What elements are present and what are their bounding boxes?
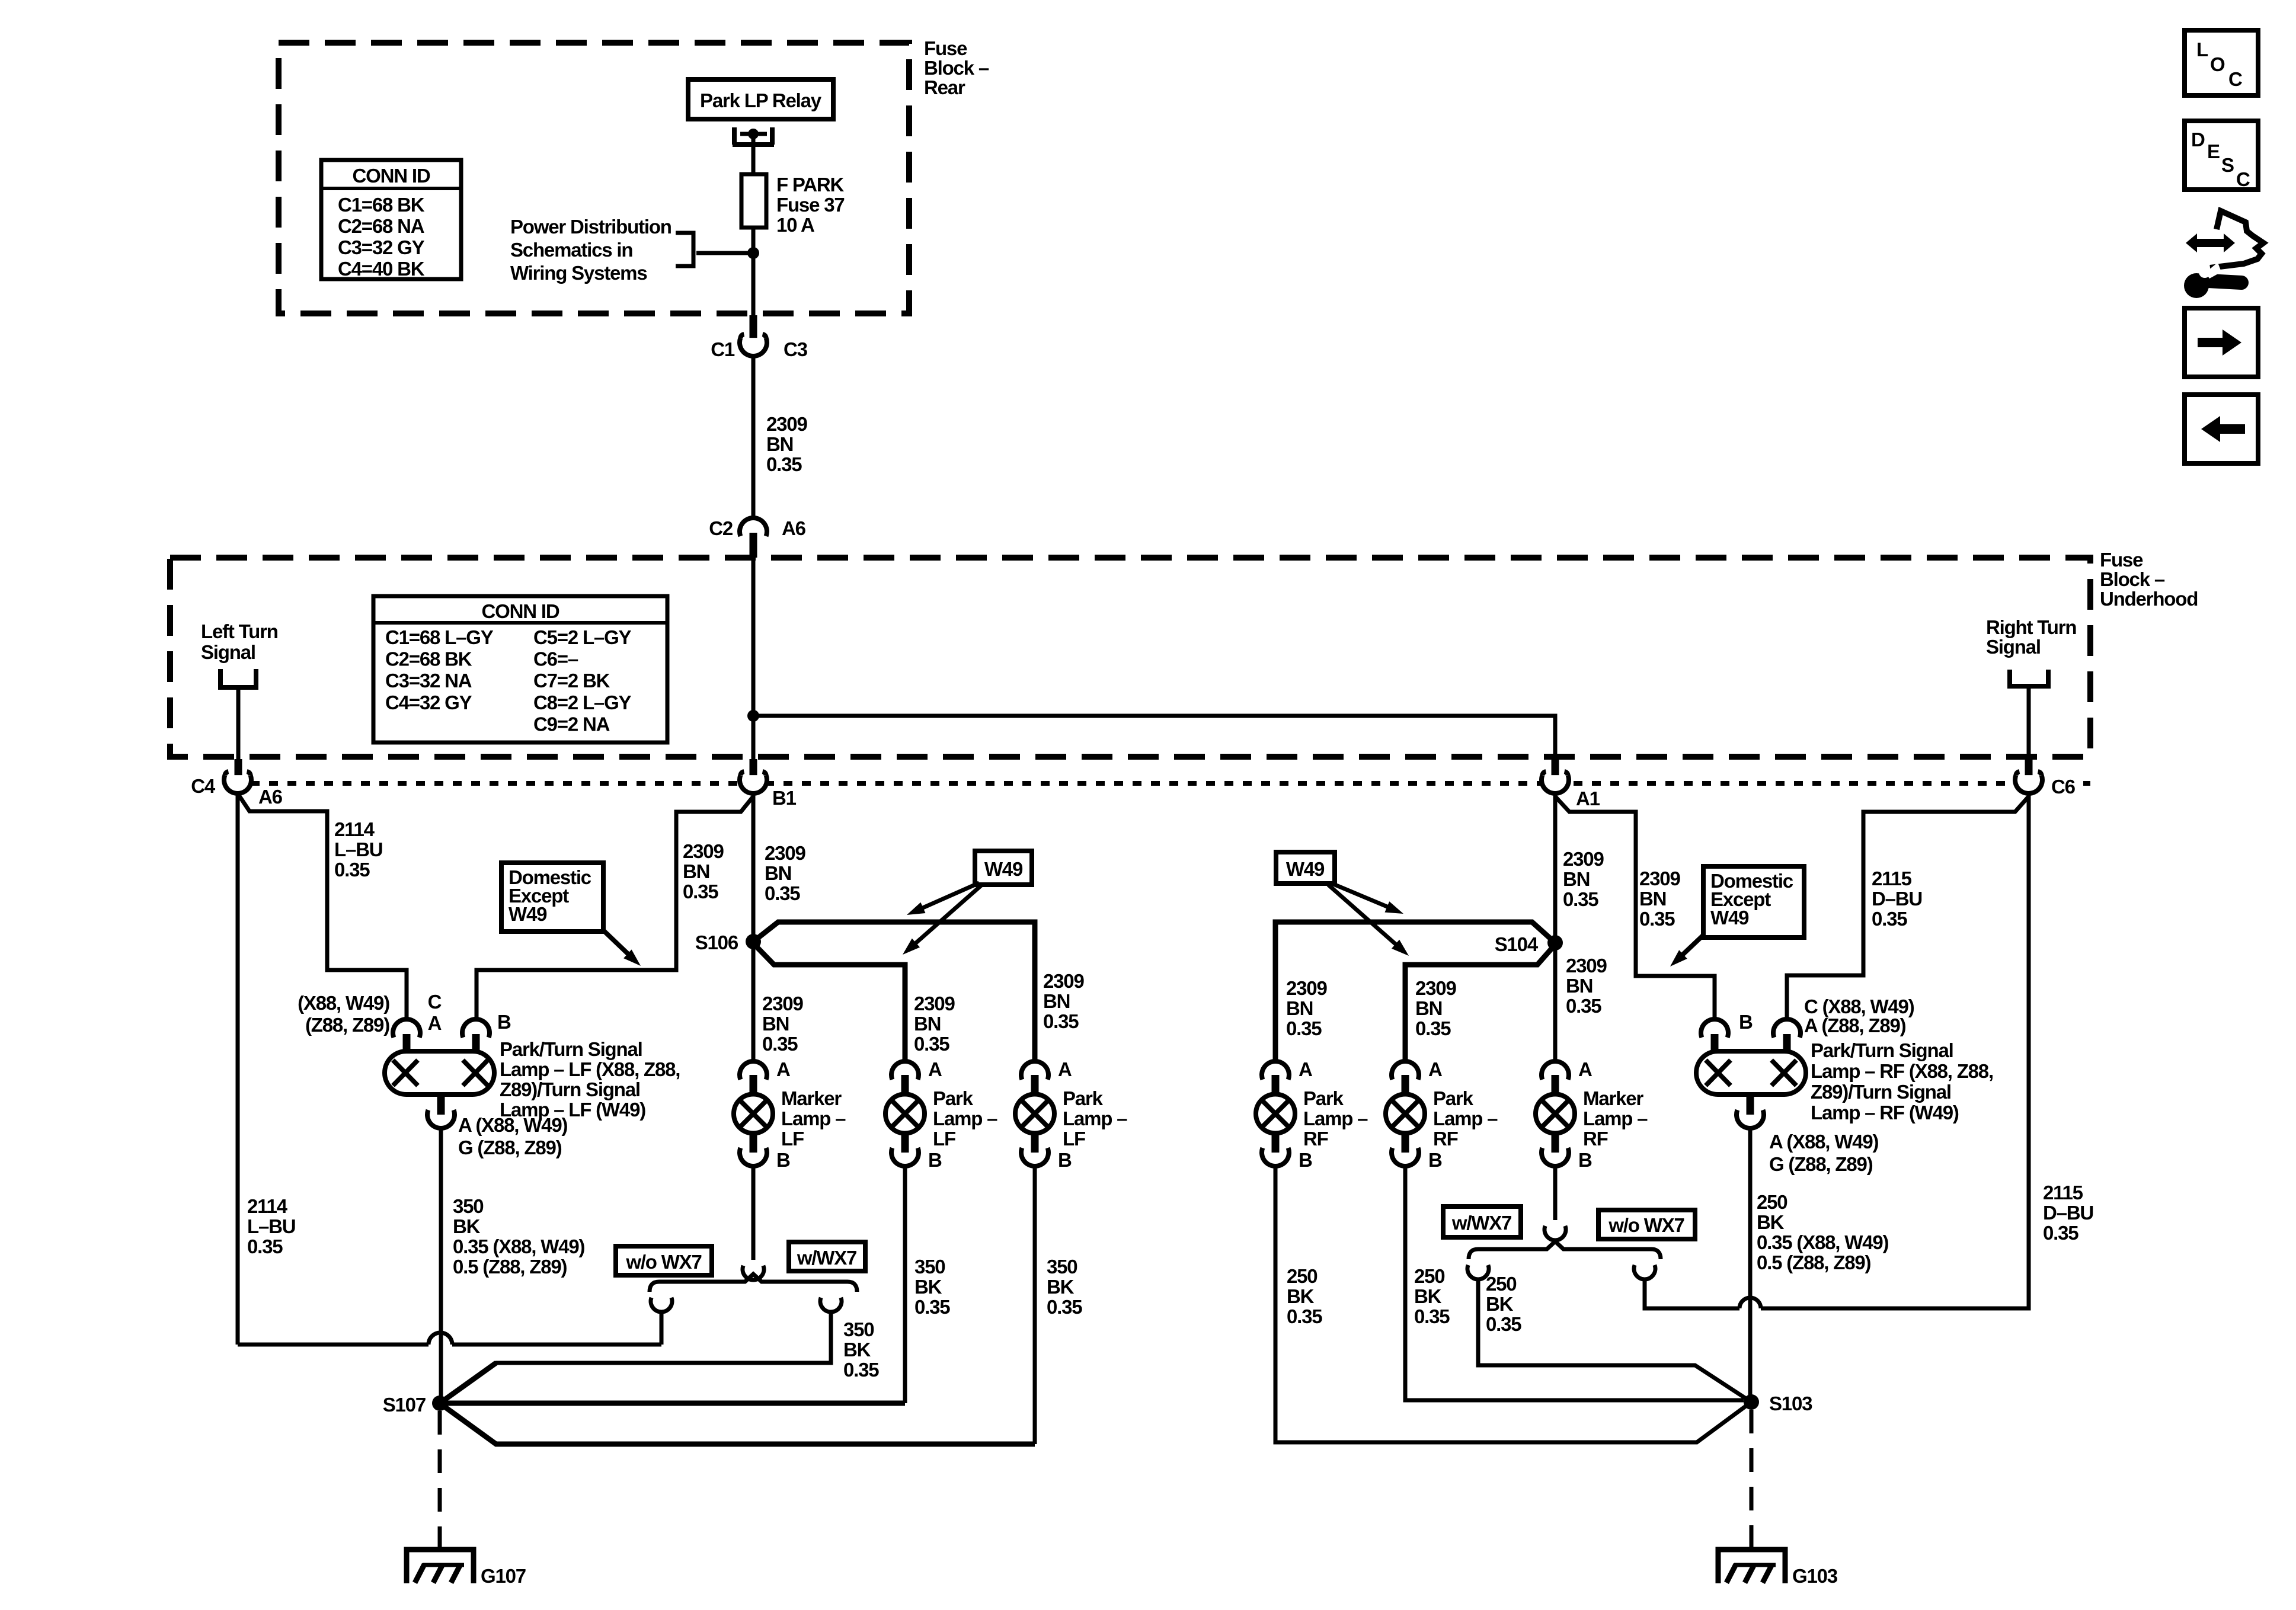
svg-text:Fuse 37: Fuse 37 [776, 194, 845, 216]
svg-text:BK: BK [1414, 1285, 1442, 1307]
svg-text:Right Turn: Right Turn [1986, 616, 2076, 638]
svg-text:0.35: 0.35 [914, 1296, 950, 1318]
label Fuse Block - Rear [924, 37, 989, 98]
svg-text:B: B [1058, 1149, 1072, 1171]
svg-text:B: B [1299, 1149, 1312, 1171]
lamp park RF 1 [1256, 1058, 1368, 1171]
svg-text:B: B [1578, 1149, 1592, 1171]
svg-text:BN: BN [1286, 997, 1313, 1019]
svg-text:2309: 2309 [914, 993, 955, 1014]
svg-text:0.35: 0.35 [1043, 1010, 1079, 1032]
svg-text:C9=2 NA: C9=2 NA [533, 713, 610, 735]
svg-text:Z89)/Turn Signal: Z89)/Turn Signal [1811, 1081, 1951, 1103]
svg-text:C6=–: C6=– [533, 648, 578, 670]
connector C6 [2015, 759, 2076, 798]
svg-text:Underhood: Underhood [2100, 588, 2198, 610]
svg-text:S106: S106 [695, 932, 738, 953]
fuse F PARK Fuse 37 10A [741, 174, 845, 236]
svg-text:0.35 (X88, W49): 0.35 (X88, W49) [453, 1235, 584, 1257]
svg-text:A (X88, W49): A (X88, W49) [1769, 1131, 1878, 1153]
svg-text:Marker: Marker [1583, 1087, 1643, 1109]
svg-text:Lamp –: Lamp – [1433, 1108, 1498, 1129]
svg-text:BN: BN [766, 433, 793, 455]
svg-text:250: 250 [1287, 1265, 1317, 1287]
svg-text:C5=2 L–GY: C5=2 L–GY [533, 626, 632, 648]
svg-text:RF: RF [1583, 1128, 1608, 1150]
label 350 BK park LF 2 [1047, 1256, 1082, 1318]
svg-text:Park/Turn Signal: Park/Turn Signal [500, 1038, 642, 1060]
svg-text:2309: 2309 [1043, 970, 1084, 992]
label 2309 BN 0.35 marker LF [762, 993, 803, 1055]
label 350 BK w/WX7 left [843, 1318, 879, 1381]
icon repair outline [2210, 211, 2263, 268]
wire 250 BK park RF 2 to S103 [1405, 1166, 1744, 1400]
svg-text:CONN ID: CONN ID [482, 600, 559, 622]
svg-text:A: A [1428, 1058, 1442, 1080]
icon back arrow box [2185, 395, 2258, 463]
svg-text:Power Distribution: Power Distribution [510, 216, 671, 238]
connector C1-C3 [711, 315, 807, 360]
svg-text:Lamp –: Lamp – [1303, 1108, 1368, 1129]
conn id table - fuse block rear [321, 160, 461, 280]
svg-text:BK: BK [1047, 1276, 1075, 1298]
ground G103 [1718, 1550, 1838, 1587]
svg-text:Wiring Systems: Wiring Systems [510, 262, 647, 284]
svg-text:D–BU: D–BU [1872, 888, 1922, 910]
svg-text:Lamp –: Lamp – [1063, 1108, 1127, 1129]
wire 2309 BN A1 branch to lamp pin B [1555, 796, 1715, 1019]
labels right stadium bottom pin [1769, 1131, 1878, 1175]
label 2114 L-BU 0.35 upper [334, 818, 382, 881]
svg-text:C3: C3 [784, 338, 808, 360]
wire marker RF to inline connector [1553, 1166, 1558, 1220]
svg-text:S: S [2221, 154, 2234, 176]
svg-text:S104: S104 [1495, 933, 1539, 955]
wire 2114 L-BU C4 down [236, 793, 240, 1345]
wire right turn signal to C6 [2027, 686, 2031, 761]
fuse block - underhood dashed enclosure [170, 558, 2090, 757]
svg-text:LF: LF [781, 1128, 804, 1150]
svg-text:S103: S103 [1769, 1393, 1812, 1414]
svg-text:Schematics in: Schematics in [510, 239, 632, 261]
svg-text:O: O [2210, 53, 2225, 75]
wire w/WX7 right to S103 [1478, 1279, 1751, 1402]
svg-text:LF: LF [1063, 1128, 1085, 1150]
svg-text:BK: BK [453, 1215, 481, 1237]
svg-text:BK: BK [843, 1339, 871, 1361]
svg-text:G (Z88, Z89): G (Z88, Z89) [1769, 1153, 1873, 1175]
svg-text:350: 350 [1047, 1256, 1077, 1278]
svg-text:350: 350 [843, 1318, 874, 1340]
wire S104 branch to park lamp RF 1 [1275, 922, 1555, 1061]
connector C4-A6 [191, 759, 282, 808]
wire 2309 BN B1 branch to lamp pin B [477, 796, 753, 1019]
connector B1 [740, 759, 797, 809]
lamp marker LF [734, 1058, 846, 1171]
label 2309 BN 0.35 park LF 2 [1043, 970, 1084, 1032]
lamp park RF 2 [1386, 1058, 1498, 1171]
svg-text:Lamp –: Lamp – [933, 1108, 997, 1129]
svg-text:L–BU: L–BU [247, 1215, 295, 1237]
svg-text:A6: A6 [258, 786, 283, 808]
callout w/WX7 right [1443, 1206, 1521, 1237]
svg-text:BN: BN [1043, 990, 1070, 1012]
svg-text:C1: C1 [711, 338, 735, 360]
svg-text:Left Turn: Left Turn [201, 620, 278, 642]
svg-text:BN: BN [1563, 868, 1590, 890]
svg-text:B: B [1739, 1011, 1753, 1033]
node power distribution tap [747, 247, 759, 259]
svg-text:LF: LF [933, 1128, 955, 1150]
svg-text:2309: 2309 [683, 840, 724, 862]
hop 2115 over 250 BK [1739, 1298, 1761, 1308]
svg-text:Fuse: Fuse [2100, 549, 2143, 571]
svg-text:Z89)/Turn Signal: Z89)/Turn Signal [500, 1078, 640, 1100]
svg-text:A (Z88, Z89): A (Z88, Z89) [1804, 1014, 1906, 1036]
wire relay to fuse F PARK [752, 137, 756, 175]
node B1 feed junction [747, 710, 759, 722]
svg-text:Park: Park [1303, 1087, 1344, 1109]
svg-text:C1=68 BK: C1=68 BK [338, 194, 425, 216]
svg-text:Park: Park [933, 1087, 974, 1109]
svg-text:2309: 2309 [1639, 868, 1680, 889]
labels right stadium pins [1739, 996, 1914, 1036]
svg-text:2309: 2309 [1563, 848, 1604, 870]
wire 250 BK park RF 1 to S103 [1275, 1166, 1751, 1442]
wire S106 branch to park lamp LF 1 [753, 943, 905, 1061]
callout w/o WX7 right [1598, 1210, 1695, 1239]
wire 2115 D-BU C6 down [1645, 793, 2029, 1308]
labels left stadium pins [298, 991, 511, 1036]
wire w/WX7 left to S107 [440, 1311, 831, 1403]
callout Domestic Except W49 right [1670, 866, 1804, 966]
wire 2309 BN C1 to C2 [752, 356, 756, 518]
wire S106 to marker lamp LF [752, 948, 756, 1061]
split bracket marker RF [1469, 1241, 1661, 1259]
icon repair wrench [2184, 263, 2241, 298]
svg-text:Fuse: Fuse [924, 37, 967, 59]
svg-text:w/WX7: w/WX7 [1451, 1212, 1511, 1234]
lamp park/turn signal RF stadium [1696, 1019, 1806, 1128]
svg-text:F PARK: F PARK [776, 174, 845, 196]
svg-text:C: C [428, 991, 442, 1013]
power distribution reference bracket [676, 233, 693, 266]
splice S104 [1495, 933, 1563, 955]
splice S107 [383, 1394, 447, 1416]
svg-text:0.35: 0.35 [247, 1235, 283, 1257]
callout Domestic Except W49 left [501, 863, 641, 966]
svg-text:2309: 2309 [1566, 955, 1607, 977]
svg-text:Lamp – LF (X88, Z88,: Lamp – LF (X88, Z88, [500, 1058, 680, 1080]
label 2115 D-BU 0.35 lower [2043, 1182, 2093, 1244]
svg-text:2309: 2309 [762, 993, 803, 1014]
svg-text:D: D [2191, 129, 2205, 151]
label 2309 BN 0.35 trunk upper [766, 413, 807, 475]
inline connector marker RF [1544, 1226, 1566, 1240]
wire marker LF to inline connector [752, 1166, 756, 1260]
svg-text:Lamp – RF (W49): Lamp – RF (W49) [1811, 1102, 1959, 1124]
svg-text:0.35: 0.35 [2043, 1222, 2078, 1244]
svg-text:Lamp –: Lamp – [781, 1108, 846, 1129]
svg-text:C: C [2236, 168, 2250, 190]
svg-text:BN: BN [1415, 997, 1442, 1019]
svg-text:0.35: 0.35 [1566, 995, 1601, 1017]
svg-text:250: 250 [1486, 1273, 1516, 1295]
wire S106 branch to park lamp LF 2 [753, 922, 1035, 1061]
svg-text:2115: 2115 [2043, 1182, 2083, 1204]
svg-text:0.35: 0.35 [766, 453, 802, 475]
svg-text:C1=68 L–GY: C1=68 L–GY [385, 626, 494, 648]
label Right Turn Signal [1986, 616, 2076, 658]
svg-text:2309: 2309 [766, 413, 807, 435]
wire 2114 L-BU C4 branch to lamp pin C/A [238, 793, 407, 1019]
svg-text:W49: W49 [984, 858, 1023, 880]
svg-text:B: B [1428, 1149, 1442, 1171]
label 350 BK left [453, 1195, 584, 1278]
wire 350 BK park/turn LF to S107 [439, 1128, 443, 1403]
wire tap to bracket [696, 251, 750, 255]
svg-text:RF: RF [1303, 1128, 1328, 1150]
callout W49 left [903, 851, 1032, 955]
svg-text:A1: A1 [1576, 788, 1600, 809]
label 2309 BN 0.35 above S104 [1563, 848, 1604, 910]
svg-text:BK: BK [914, 1276, 942, 1298]
svg-text:G (Z88, Z89): G (Z88, Z89) [458, 1137, 562, 1158]
label park/turn signal lamp LF name [500, 1038, 680, 1121]
svg-text:0.35: 0.35 [1047, 1296, 1082, 1318]
svg-text:0.35: 0.35 [1287, 1305, 1322, 1327]
svg-text:C4: C4 [191, 775, 216, 797]
svg-text:0.5 (Z88, Z89): 0.5 (Z88, Z89) [1757, 1251, 1870, 1273]
conn id table - fuse block underhood [373, 596, 667, 742]
svg-text:Park: Park [1063, 1087, 1104, 1109]
svg-text:0.35: 0.35 [765, 882, 800, 904]
svg-text:350: 350 [914, 1256, 945, 1278]
connector C2-A6 [709, 517, 805, 558]
svg-text:C2=68 BK: C2=68 BK [385, 648, 472, 670]
wire S107 to ground G107 [438, 1411, 442, 1548]
svg-text:Lamp – RF (X88, Z88,: Lamp – RF (X88, Z88, [1811, 1060, 1993, 1082]
svg-text:Signal: Signal [1986, 636, 2041, 658]
svg-text:350: 350 [453, 1195, 483, 1217]
left turn signal half-box [220, 669, 256, 687]
svg-text:C4=32 GY: C4=32 GY [385, 692, 472, 713]
lamp park LF 2 [1015, 1058, 1127, 1171]
inline connector w/o WX7 left [651, 1298, 672, 1312]
label park/turn signal lamp RF name [1811, 1039, 1993, 1124]
callout W49 right [1276, 852, 1409, 956]
inline connector w/WX7 right [1467, 1265, 1489, 1279]
lamp marker RF [1536, 1058, 1648, 1171]
svg-text:0.35: 0.35 [1563, 888, 1598, 910]
svg-text:BN: BN [1566, 975, 1593, 997]
wire w/o WX7 right to 2115 [1643, 1279, 1647, 1308]
lamp park LF 1 [885, 1058, 997, 1171]
svg-text:Block –: Block – [924, 57, 989, 79]
svg-text:2309: 2309 [765, 842, 805, 864]
svg-text:A: A [928, 1058, 942, 1080]
fuse block - rear dashed enclosure [279, 43, 909, 313]
svg-text:BN: BN [683, 860, 709, 882]
svg-text:w/o WX7: w/o WX7 [625, 1251, 701, 1273]
svg-text:(Z88, Z89): (Z88, Z89) [305, 1014, 389, 1036]
label 250 BK w/WX7 right [1486, 1273, 1521, 1335]
svg-text:Block –: Block – [2100, 568, 2165, 590]
svg-text:C6: C6 [2051, 776, 2076, 798]
connector A1 [1542, 759, 1600, 809]
svg-text:B1: B1 [772, 787, 797, 809]
svg-text:(X88, W49): (X88, W49) [298, 992, 389, 1014]
svg-text:0.35: 0.35 [1486, 1313, 1521, 1335]
label Power Distribution Schematics in Wiring Systems [510, 216, 671, 284]
right turn signal half-box [2010, 670, 2048, 686]
wire 250 BK park/turn RF to S103 [1748, 1128, 1753, 1402]
svg-text:A6: A6 [782, 517, 806, 539]
svg-text:BN: BN [762, 1013, 789, 1035]
svg-text:L: L [2196, 39, 2208, 60]
callout w/o WX7 left [616, 1246, 712, 1275]
split bracket marker LF [650, 1274, 857, 1292]
icon repair double arrow [2186, 233, 2235, 252]
svg-text:BN: BN [1639, 888, 1666, 910]
label 250 BK right [1757, 1191, 1888, 1273]
svg-text:Marker: Marker [781, 1087, 842, 1109]
svg-text:Park: Park [1433, 1087, 1474, 1109]
svg-text:2309: 2309 [1415, 977, 1456, 999]
svg-text:C3=32 GY: C3=32 GY [338, 236, 425, 258]
svg-text:250: 250 [1757, 1191, 1787, 1213]
svg-text:D–BU: D–BU [2043, 1202, 2093, 1224]
svg-text:Signal: Signal [201, 641, 255, 663]
svg-text:A (X88, W49): A (X88, W49) [458, 1114, 567, 1136]
svg-text:W49: W49 [509, 903, 547, 925]
callout w/WX7 left [789, 1242, 865, 1271]
label 250 BK park RF 1 [1287, 1265, 1322, 1327]
svg-text:0.35: 0.35 [1286, 1017, 1322, 1039]
wire S104 to marker lamp RF [1553, 948, 1558, 1061]
svg-text:A: A [1578, 1058, 1592, 1080]
svg-text:C7=2 BK: C7=2 BK [533, 670, 610, 692]
splice S106 [695, 932, 761, 953]
svg-text:0.35: 0.35 [1639, 908, 1675, 930]
svg-text:C2: C2 [709, 517, 733, 539]
label 2115 D-BU 0.35 upper [1872, 868, 1922, 930]
svg-text:W49: W49 [1286, 858, 1325, 880]
svg-text:0.35: 0.35 [1872, 908, 1907, 930]
wire 2115 D-BU C6 branch to lamp pin C/A [1787, 796, 2029, 1019]
svg-text:Lamp –: Lamp – [1583, 1108, 1648, 1129]
svg-text:2309: 2309 [1286, 977, 1327, 999]
svg-text:A: A [1058, 1058, 1072, 1080]
icon forward arrow box [2185, 308, 2258, 377]
svg-text:C2=68 NA: C2=68 NA [338, 215, 424, 237]
svg-text:0.35: 0.35 [1415, 1017, 1451, 1039]
svg-text:C4=40 BK: C4=40 BK [338, 258, 425, 280]
svg-text:A: A [428, 1012, 442, 1034]
wire w/o WX7 left to 2114 [660, 1311, 664, 1345]
wire fuse to connector C1 [752, 228, 756, 316]
svg-text:Park LP Relay: Park LP Relay [700, 89, 822, 111]
wire 2309 BN B1 to S106 [752, 793, 756, 942]
svg-text:W49: W49 [1710, 907, 1749, 929]
svg-text:RF: RF [1433, 1128, 1458, 1150]
svg-text:G103: G103 [1792, 1565, 1838, 1587]
label 250 BK park RF 2 [1414, 1265, 1450, 1327]
svg-text:C8=2 L–GY: C8=2 L–GY [533, 692, 632, 713]
wire S103 to ground G103 [1750, 1410, 1754, 1548]
label 2309 BN 0.35 B1 branch [683, 840, 724, 902]
icon DESC box [2185, 121, 2258, 190]
label 350 BK park LF 1 [914, 1256, 950, 1318]
svg-text:250: 250 [1414, 1265, 1444, 1287]
wire S107 spoke upper [440, 1363, 496, 1403]
svg-text:0.5 (Z88, Z89): 0.5 (Z88, Z89) [453, 1256, 567, 1278]
label 2309 BN 0.35 park RF 2 [1415, 977, 1456, 1039]
svg-text:E: E [2207, 140, 2220, 162]
wire S107 spoke lower [440, 1403, 1035, 1444]
svg-text:BN: BN [914, 1013, 941, 1035]
svg-text:CONN ID: CONN ID [353, 165, 430, 187]
svg-text:0.35: 0.35 [1414, 1305, 1450, 1327]
svg-text:B: B [776, 1149, 790, 1171]
wire S107 spoke middle [440, 1401, 905, 1406]
svg-text:C3=32 NA: C3=32 NA [385, 670, 472, 692]
label 2309 BN 0.35 A1 branch [1639, 868, 1680, 930]
svg-text:BK: BK [1757, 1211, 1785, 1233]
inline connector w/o WX7 right [1634, 1265, 1655, 1279]
inline connector marker LF [743, 1266, 764, 1280]
svg-text:L–BU: L–BU [334, 838, 382, 860]
svg-text:Park/Turn Signal: Park/Turn Signal [1811, 1039, 1953, 1061]
svg-text:BN: BN [765, 862, 791, 884]
wire 2309 BN A1 to S104 [1553, 793, 1558, 943]
labels left stadium bottom pin [458, 1114, 567, 1158]
wire left turn signal to C4 [236, 687, 241, 761]
svg-text:BK: BK [1486, 1293, 1514, 1315]
svg-text:0.35: 0.35 [683, 881, 718, 902]
svg-text:B: B [497, 1011, 511, 1033]
icon LOC box [2185, 30, 2258, 95]
splice S103 [1744, 1393, 1812, 1414]
label 2309 BN 0.35 park RF 1 [1286, 977, 1327, 1039]
svg-text:0.35: 0.35 [334, 859, 370, 881]
wire junction to A1 [753, 716, 1555, 763]
relay contact symbol [733, 127, 774, 145]
wire C2 to B1 trunk [752, 558, 756, 763]
relay K - Park LP Relay box [688, 79, 833, 119]
svg-text:A: A [1299, 1058, 1312, 1080]
svg-text:BK: BK [1287, 1285, 1315, 1307]
svg-text:w/o WX7: w/o WX7 [1608, 1214, 1684, 1236]
label Fuse Block - Underhood [2100, 549, 2198, 610]
wire S104 branch to park lamp RF 2 [1405, 945, 1555, 1061]
wire 2114 horizontal to w/o connector [238, 1343, 661, 1347]
wire 350 BK park LF 1 to S107 [903, 1166, 907, 1403]
label 2309 BN 0.35 marker RF [1566, 955, 1607, 1017]
svg-text:10 A: 10 A [776, 214, 814, 236]
svg-text:0.35 (X88, W49): 0.35 (X88, W49) [1757, 1231, 1888, 1253]
ground G107 [407, 1550, 526, 1587]
svg-text:0.35: 0.35 [762, 1033, 798, 1055]
svg-text:G107: G107 [481, 1565, 526, 1587]
svg-text:S107: S107 [383, 1394, 426, 1416]
svg-text:A: A [776, 1058, 790, 1080]
label Left Turn Signal [201, 620, 278, 663]
engine harness dotted line [251, 781, 2090, 786]
svg-text:0.35: 0.35 [914, 1033, 949, 1055]
wire 350 BK park LF 2 to S107 [1033, 1166, 1037, 1444]
hop 2114 over lamp wire [428, 1333, 452, 1345]
